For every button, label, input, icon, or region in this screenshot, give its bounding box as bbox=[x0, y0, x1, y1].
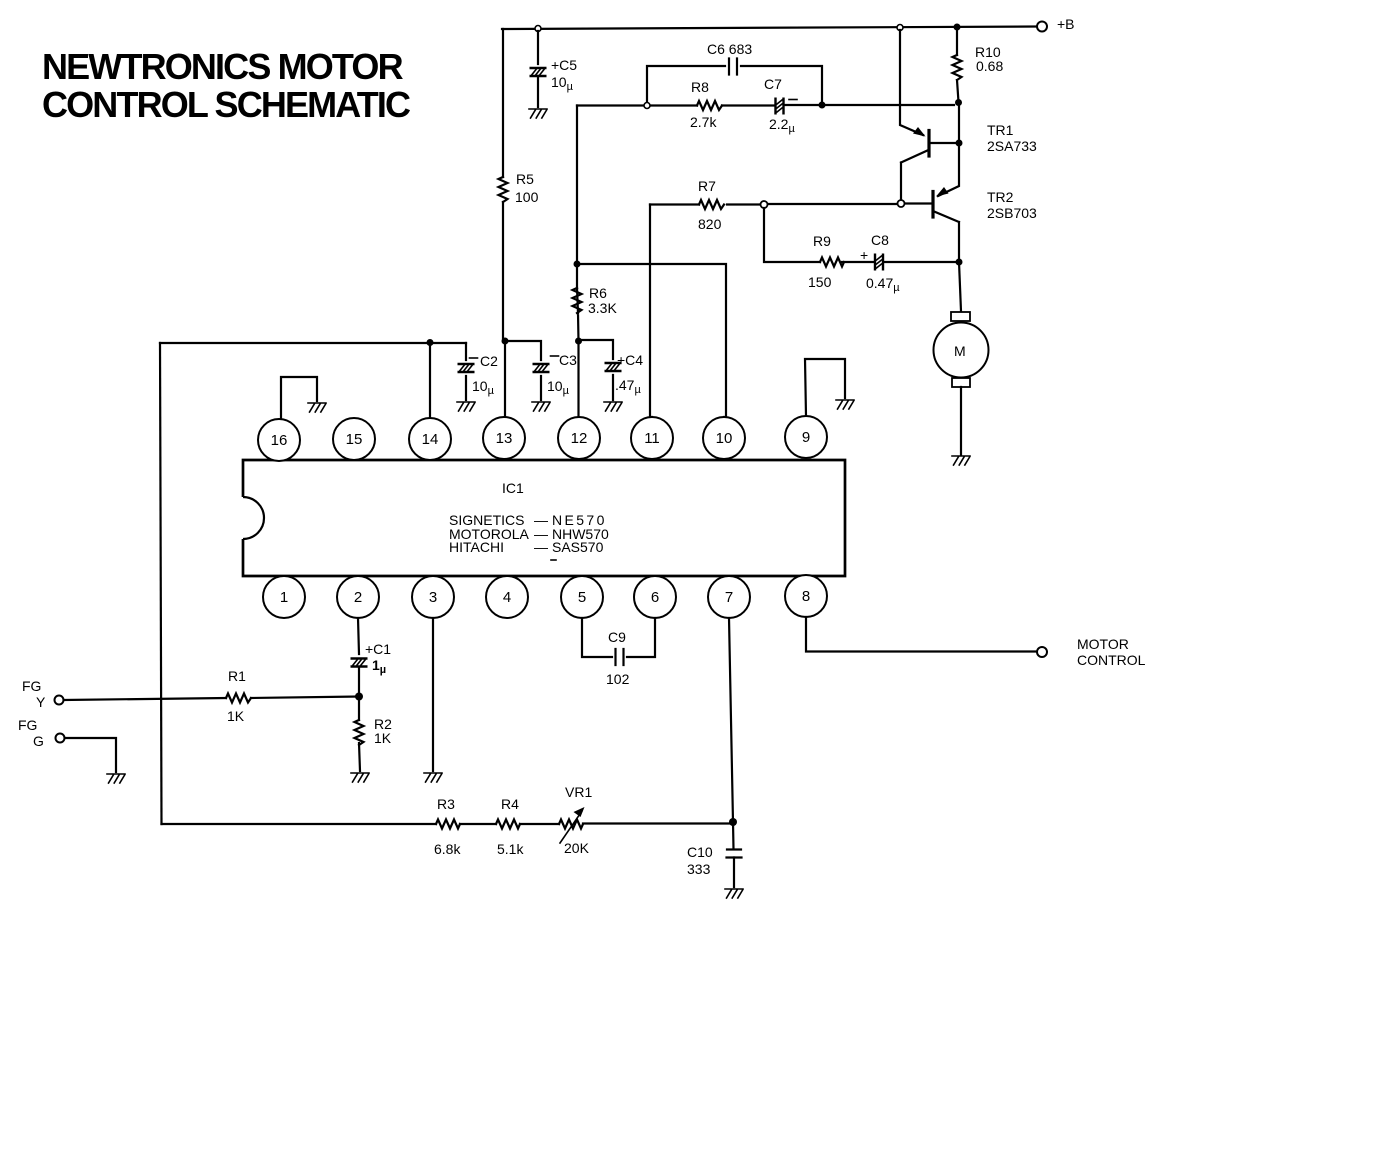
svg-text:+: + bbox=[860, 247, 868, 263]
wire TR1 emitter from +B bbox=[900, 30, 923, 135]
svg-text:5.1k: 5.1k bbox=[497, 841, 524, 857]
ground C3 bbox=[532, 402, 550, 411]
pin 12 bbox=[558, 417, 600, 459]
node TR2 collector / C8 junction bbox=[956, 259, 963, 266]
wire +B rail bbox=[502, 27, 1037, 30]
svg-text:C2: C2 bbox=[480, 353, 498, 369]
svg-text:2.7k: 2.7k bbox=[690, 114, 717, 130]
svg-text:R8: R8 bbox=[691, 79, 709, 95]
capacitor C1 bbox=[351, 659, 368, 667]
svg-text:NEWTRONICS MOTOR: NEWTRONICS MOTOR bbox=[42, 46, 404, 87]
node TR1 emitter tap bbox=[897, 25, 903, 31]
resistor R6 bbox=[573, 264, 582, 313]
svg-text:—: — bbox=[534, 539, 548, 555]
svg-text:2SA733: 2SA733 bbox=[987, 138, 1037, 154]
node R9 branch junction bbox=[761, 201, 768, 208]
svg-text:+B: +B bbox=[1057, 16, 1075, 32]
wire R7 line bbox=[650, 203, 897, 206]
svg-text:9: 9 bbox=[802, 429, 810, 446]
svg-text:10µ: 10µ bbox=[551, 74, 574, 93]
svg-text:10µ: 10µ bbox=[547, 378, 570, 397]
pin 7 bbox=[708, 576, 750, 618]
svg-text:1: 1 bbox=[280, 589, 288, 606]
wire pin2 C1 branch bbox=[358, 618, 359, 693]
svg-text:HITACHI: HITACHI bbox=[449, 539, 504, 555]
svg-text:16: 16 bbox=[271, 432, 288, 449]
svg-text:+C1: +C1 bbox=[365, 641, 391, 657]
resistor R10 bbox=[953, 27, 962, 102]
wire R6 column bbox=[577, 106, 579, 342]
svg-text:M: M bbox=[954, 343, 966, 359]
wire R5 branch bbox=[503, 29, 505, 341]
pin 8 bbox=[785, 575, 827, 617]
svg-text:100: 100 bbox=[515, 189, 539, 205]
node TR2 base junction bbox=[898, 200, 905, 207]
wire motor feed bbox=[959, 262, 961, 311]
svg-text:0.68: 0.68 bbox=[976, 58, 1003, 74]
svg-text:C3: C3 bbox=[559, 352, 577, 368]
wire pin5 C9 bbox=[582, 618, 612, 657]
terminal +B bbox=[1037, 22, 1047, 32]
node R8 left junction bbox=[644, 103, 650, 109]
svg-text:13: 13 bbox=[496, 430, 513, 447]
svg-text:7: 7 bbox=[725, 589, 733, 606]
resistor R2 bbox=[355, 697, 364, 772]
pin 15 bbox=[333, 418, 375, 460]
svg-text:10: 10 bbox=[716, 430, 733, 447]
svg-text:2SB703: 2SB703 bbox=[987, 205, 1037, 221]
svg-text:5: 5 bbox=[578, 589, 586, 606]
node TR1 base junction bbox=[956, 140, 963, 147]
ground C4 bbox=[604, 402, 622, 411]
transistor Q TR2 arrow bbox=[936, 187, 949, 197]
ground C10 bbox=[725, 889, 743, 898]
svg-text:CONTROL: CONTROL bbox=[1077, 652, 1146, 668]
pin 16 bbox=[258, 419, 300, 461]
pin 5 bbox=[561, 576, 603, 618]
svg-text:C10: C10 bbox=[687, 844, 713, 860]
svg-text:820: 820 bbox=[698, 216, 722, 232]
wire R8/C7 line bbox=[577, 104, 954, 107]
svg-text:IC1: IC1 bbox=[502, 480, 524, 496]
pin 9 bbox=[785, 416, 827, 458]
ground pin16 bbox=[308, 403, 326, 412]
ground pin9 bbox=[836, 400, 854, 409]
svg-text:102: 102 bbox=[606, 671, 630, 687]
svg-text:R9: R9 bbox=[813, 233, 831, 249]
pin 10 bbox=[703, 417, 745, 459]
resistor R8 bbox=[697, 101, 722, 110]
wire FG G to ground bbox=[65, 738, 116, 772]
wire bottom R3 chain bbox=[162, 822, 734, 825]
wire big loop left bbox=[160, 343, 162, 824]
motor M bbox=[951, 312, 970, 321]
svg-text:+C4: +C4 bbox=[617, 352, 643, 368]
capacitor C9 bbox=[616, 649, 624, 665]
wire pin14 column bbox=[429, 343, 431, 418]
svg-text:C6 683: C6 683 bbox=[707, 41, 752, 57]
wire C6 loop bbox=[647, 66, 822, 104]
node pin14 junction bbox=[427, 339, 434, 346]
svg-text:FG: FG bbox=[22, 678, 41, 694]
svg-text:G: G bbox=[33, 733, 44, 749]
pin 1 bbox=[263, 576, 305, 618]
resistor R5 bbox=[499, 177, 508, 202]
svg-text:0.47µ: 0.47µ bbox=[866, 275, 900, 294]
pin 4 bbox=[486, 576, 528, 618]
capacitor C7 bbox=[776, 98, 784, 115]
node R10 bottom bbox=[955, 99, 962, 106]
ground pin3 bbox=[424, 773, 442, 782]
svg-text:C8: C8 bbox=[871, 232, 889, 248]
pin 11 bbox=[631, 417, 673, 459]
svg-text:+C5: +C5 bbox=[551, 57, 577, 73]
svg-text:R7: R7 bbox=[698, 178, 716, 194]
potentiometer VR1 bbox=[559, 820, 583, 829]
node R1/R2/C1 junction bbox=[355, 693, 363, 701]
node C6/C7 right junction bbox=[819, 102, 826, 109]
svg-text:1K: 1K bbox=[227, 708, 245, 724]
wire pin11 column bbox=[650, 205, 652, 418]
svg-text:C9: C9 bbox=[608, 629, 626, 645]
svg-text:3.3K: 3.3K bbox=[588, 300, 617, 316]
svg-text:2: 2 bbox=[354, 589, 362, 606]
svg-text:.47µ: .47µ bbox=[615, 377, 641, 396]
svg-text:R4: R4 bbox=[501, 796, 519, 812]
pin 3 bbox=[412, 576, 454, 618]
wire pin7 column bbox=[729, 618, 733, 822]
resistor R7 bbox=[699, 200, 724, 209]
capacitor C8 bbox=[875, 254, 883, 271]
wire pin9 ground loop bbox=[805, 359, 845, 416]
resistor R4 bbox=[496, 820, 520, 829]
wire emitter column bbox=[938, 103, 959, 197]
resistor R1 bbox=[226, 694, 359, 703]
wire pin12 column bbox=[577, 341, 579, 417]
node C5 tap bbox=[535, 26, 541, 32]
node R10 tap bbox=[954, 24, 961, 31]
transistor TR1 bbox=[927, 131, 930, 157]
svg-text:3: 3 bbox=[429, 589, 437, 606]
svg-text:2.2µ: 2.2µ bbox=[769, 116, 795, 135]
wire pin16 ground loop bbox=[281, 377, 317, 419]
svg-text:TR2: TR2 bbox=[987, 189, 1014, 205]
svg-text:R1: R1 bbox=[228, 668, 246, 684]
svg-text:150: 150 bbox=[808, 274, 832, 290]
pin 2 bbox=[337, 576, 379, 618]
svg-text:6.8k: 6.8k bbox=[434, 841, 461, 857]
capacitor C6 bbox=[729, 59, 737, 75]
capacitor C2 bbox=[465, 343, 467, 400]
node pin12 junction bbox=[575, 338, 582, 345]
svg-text:R5: R5 bbox=[516, 171, 534, 187]
ground R2 bbox=[351, 773, 369, 782]
wire R9/C8 branch bbox=[764, 208, 955, 262]
wire pin13 column bbox=[504, 341, 506, 417]
svg-text:1K: 1K bbox=[374, 730, 392, 746]
svg-text:14: 14 bbox=[422, 431, 439, 448]
svg-text:333: 333 bbox=[687, 861, 711, 877]
svg-text:SAS570: SAS570 bbox=[552, 539, 604, 555]
pin 13 bbox=[483, 417, 525, 459]
svg-text:6: 6 bbox=[651, 589, 659, 606]
pin 6 bbox=[634, 576, 676, 618]
wire pin10 column bbox=[577, 264, 726, 417]
capacitor C10 bbox=[733, 822, 734, 887]
svg-text:C7: C7 bbox=[764, 76, 782, 92]
svg-text:15: 15 bbox=[346, 431, 363, 448]
node pin13 junction bbox=[502, 338, 509, 345]
resistor R9 bbox=[820, 258, 844, 267]
svg-text:Y: Y bbox=[36, 694, 46, 710]
svg-text:20K: 20K bbox=[564, 840, 590, 856]
wire pin8 motor control bbox=[806, 617, 1037, 652]
svg-text:4: 4 bbox=[503, 589, 511, 606]
ground C2 bbox=[457, 402, 475, 411]
ground FG G bbox=[107, 774, 125, 783]
pin 14 bbox=[409, 418, 451, 460]
capacitor C3 bbox=[505, 341, 541, 400]
node pin10 branch junction bbox=[574, 261, 581, 268]
IC1 body bbox=[243, 460, 845, 576]
svg-text:MOTOR: MOTOR bbox=[1077, 636, 1129, 652]
wire motor to ground bbox=[960, 387, 962, 455]
node pin7/C10 junction bbox=[729, 818, 737, 826]
ground motor bbox=[952, 456, 970, 465]
transistor Q TR1 arrow bbox=[913, 127, 926, 137]
svg-text:FG: FG bbox=[18, 717, 37, 733]
wire FG Y to R1 bbox=[64, 698, 226, 700]
capacitor C4 bbox=[579, 340, 614, 400]
wire C9 pin6 bbox=[627, 618, 655, 657]
svg-text:CONTROL SCHEMATIC: CONTROL SCHEMATIC bbox=[42, 84, 411, 125]
svg-text:R3: R3 bbox=[437, 796, 455, 812]
resistor R3 bbox=[436, 820, 460, 829]
capacitor C5 bbox=[537, 31, 539, 107]
svg-text:R6: R6 bbox=[589, 285, 607, 301]
svg-text:12: 12 bbox=[571, 430, 588, 447]
svg-text:10µ: 10µ bbox=[472, 378, 495, 397]
svg-text:VR1: VR1 bbox=[565, 784, 592, 800]
terminal MOTOR CONTROL bbox=[1037, 647, 1047, 657]
svg-text:11: 11 bbox=[644, 430, 660, 447]
svg-text:8: 8 bbox=[802, 588, 810, 605]
svg-text:1µ: 1µ bbox=[372, 657, 386, 676]
wire big loop top bbox=[160, 342, 466, 344]
wire pin3 to ground bbox=[432, 618, 434, 771]
transistor TR2 bbox=[931, 192, 934, 218]
svg-text:TR1: TR1 bbox=[987, 122, 1014, 138]
ground C5 bbox=[529, 109, 547, 118]
